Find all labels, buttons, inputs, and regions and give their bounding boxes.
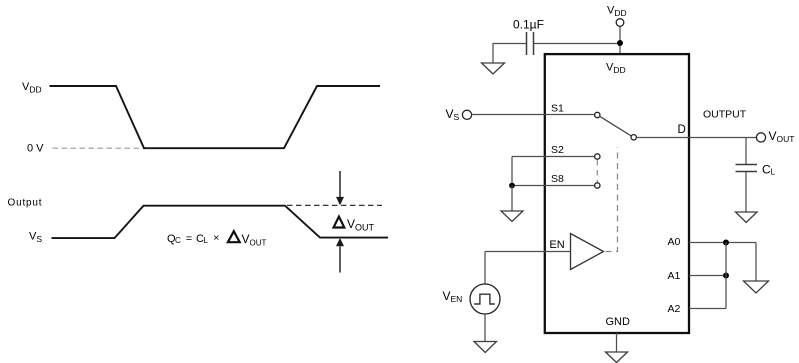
wire capacitor to VDD node xyxy=(534,43,620,45)
wire EN xyxy=(485,251,570,253)
output waveform xyxy=(52,206,389,238)
terminal VOUT xyxy=(756,133,765,142)
ground (decoupling cap) xyxy=(482,63,505,74)
wire VS to S1 xyxy=(472,114,595,116)
svg-text:A1: A1 xyxy=(668,270,681,282)
dashed reference line (output high level) xyxy=(287,204,382,206)
svg-text:0 V: 0 V xyxy=(27,143,44,155)
switch S1 arm xyxy=(600,116,632,136)
label delta VOUT annotation xyxy=(334,217,375,233)
wire CL to ground xyxy=(745,172,747,212)
svg-text:C: C xyxy=(175,236,181,245)
wire junction to ground xyxy=(511,186,513,211)
svg-text:S1: S1 xyxy=(551,103,564,115)
wire D to CL xyxy=(745,138,747,165)
buffer U2 (EN driver) xyxy=(571,234,604,270)
switch S1 pole xyxy=(595,112,600,117)
svg-text:VEN: VEN xyxy=(443,289,463,304)
wire ground to capacitor xyxy=(493,44,526,63)
svg-text:=: = xyxy=(186,233,192,245)
wire S2 xyxy=(512,156,595,158)
svg-text:L: L xyxy=(204,236,209,245)
svg-text:VS: VS xyxy=(29,231,42,245)
svg-text:VS: VS xyxy=(446,107,460,122)
svg-text:OUTPUT: OUTPUT xyxy=(703,109,747,121)
terminal VDD xyxy=(616,19,624,27)
terminal VS xyxy=(462,110,471,119)
ground (GND pin) xyxy=(606,352,628,363)
wire S8 xyxy=(512,185,595,187)
VDD waveform xyxy=(50,86,381,148)
svg-text:Output: Output xyxy=(8,198,43,209)
formula QC = CL x delta VOUT xyxy=(167,231,267,247)
svg-text:A0: A0 xyxy=(668,236,681,248)
dashed control line xyxy=(606,148,618,252)
node A1 junction xyxy=(723,273,729,279)
switch S1 throw xyxy=(631,135,636,140)
source VEN xyxy=(470,284,500,314)
svg-text:GND: GND xyxy=(606,316,631,328)
node A0 junction xyxy=(723,240,729,246)
capacitor C1 0.1uF xyxy=(527,32,534,55)
ground (VEN) xyxy=(474,342,497,353)
svg-text:×: × xyxy=(213,232,219,244)
dashed link S2-S8 xyxy=(596,160,598,183)
node S2/S8 junction xyxy=(509,183,515,189)
ground (CL) xyxy=(736,212,758,223)
svg-text:S2: S2 xyxy=(551,144,564,156)
capacitor CL xyxy=(736,165,758,172)
svg-text:VDD: VDD xyxy=(607,5,627,19)
wire D output xyxy=(637,137,757,139)
ground (S2/S8) xyxy=(501,211,523,222)
arrow up to output low level xyxy=(336,238,344,273)
node VDD junction xyxy=(617,40,623,46)
wire VEN to ground xyxy=(484,314,486,341)
IC U1 body xyxy=(545,54,689,333)
svg-text:0.1µF: 0.1µF xyxy=(513,18,544,32)
wire VDD terminal to box xyxy=(619,27,621,55)
svg-text:A2: A2 xyxy=(668,303,681,315)
svg-text:VOUT: VOUT xyxy=(769,129,795,144)
svg-text:VDD: VDD xyxy=(606,62,626,76)
svg-text:S8: S8 xyxy=(551,173,564,185)
wire EN corner to VEN xyxy=(484,252,486,284)
svg-text:CL: CL xyxy=(762,163,776,177)
switch S8 contact xyxy=(595,183,600,188)
arrow down to dashed line xyxy=(336,171,344,205)
wire A1 xyxy=(689,275,726,277)
svg-text:D: D xyxy=(678,124,686,136)
wire GND pin xyxy=(616,333,618,352)
svg-text:EN: EN xyxy=(549,239,564,251)
svg-text:VOUT: VOUT xyxy=(347,217,375,233)
svg-text:VDD: VDD xyxy=(22,81,42,95)
wire A0 xyxy=(689,242,756,244)
wire address bus tie xyxy=(725,243,727,309)
switch S2 contact xyxy=(595,154,600,159)
wire A2 xyxy=(689,308,726,310)
svg-text:VOUT: VOUT xyxy=(242,232,267,248)
ground (address pins) xyxy=(744,281,769,293)
wire S2 to S8 tie xyxy=(511,157,513,186)
wire A0 to ground xyxy=(755,243,757,281)
0V dashed baseline xyxy=(53,147,144,149)
